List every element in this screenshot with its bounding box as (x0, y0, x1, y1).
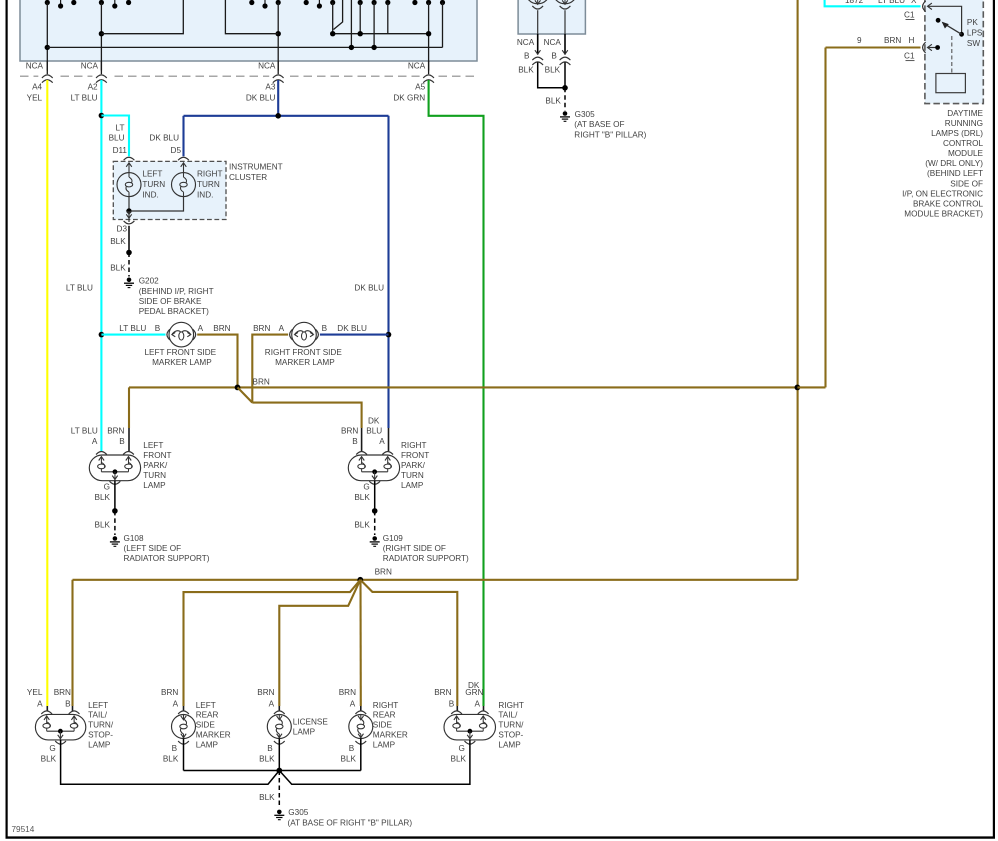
svg-text:BLK: BLK (163, 754, 179, 763)
svg-text:LEFT: LEFT (143, 441, 163, 450)
svg-text:NCA: NCA (258, 62, 276, 71)
svg-text:(AT BASE OF RIGHT "B" PILLAR): (AT BASE OF RIGHT "B" PILLAR) (288, 818, 413, 827)
wire BRN branch to license lamp (279, 580, 360, 712)
svg-text:NCA: NCA (517, 38, 535, 47)
wire BLK middle box to ground node (518, 63, 568, 111)
svg-text:A2: A2 (88, 82, 98, 91)
svg-text:C1: C1 (904, 11, 915, 20)
daytime running lamps (DRL) control module (dashed box) (925, 0, 983, 104)
svg-text:BRN: BRN (884, 36, 901, 45)
svg-text:G: G (104, 483, 110, 492)
svg-text:MARKER LAMP: MARKER LAMP (152, 358, 212, 367)
svg-text:B: B (551, 52, 557, 61)
svg-text:BRN: BRN (213, 324, 230, 333)
svg-text:RADIATOR SUPPORT): RADIATOR SUPPORT) (124, 554, 210, 563)
svg-text:B: B (155, 324, 161, 333)
svg-text:G: G (459, 744, 465, 753)
svg-text:MARKER: MARKER (196, 731, 231, 740)
svg-text:NCA: NCA (26, 62, 44, 71)
svg-text:BRN: BRN (339, 688, 356, 697)
wire 9 BRN to DRL module pin H (826, 36, 921, 48)
svg-text:A: A (198, 324, 204, 333)
svg-text:BLK: BLK (545, 97, 561, 106)
ground G305 (rear) (274, 808, 412, 827)
svg-text:YEL: YEL (27, 688, 43, 697)
svg-text:1872: 1872 (845, 0, 864, 5)
lamp LEFT FRONT PARK/TURN LAMP (71, 427, 172, 491)
wire BRN bus (upper) with junction (129, 378, 797, 452)
svg-text:LICENSE: LICENSE (293, 718, 329, 727)
svg-text:B: B (524, 52, 530, 61)
junction block internal bus wires (45, 0, 443, 74)
svg-text:NCA: NCA (408, 62, 426, 71)
svg-text:STOP-: STOP- (88, 731, 113, 740)
svg-text:BLK: BLK (259, 754, 275, 763)
svg-text:REAR: REAR (373, 711, 396, 720)
svg-text:LT: LT (116, 123, 125, 132)
svg-text:(BEHIND I/P, RIGHT: (BEHIND I/P, RIGHT (139, 287, 214, 296)
svg-text:TURN/: TURN/ (88, 721, 114, 730)
svg-text:RUNNING: RUNNING (945, 119, 983, 128)
lamp LICENSE LAMP (257, 688, 328, 763)
svg-text:REAR: REAR (196, 711, 219, 720)
junction block J1 (top left, cut off at top) (20, 0, 477, 61)
pin G right front park/turn lamp + wire BLK (354, 481, 380, 535)
pin D3 connector (cluster ground) (117, 221, 135, 234)
svg-text:TURN: TURN (142, 180, 165, 189)
svg-text:YEL: YEL (27, 93, 43, 102)
svg-text:BLK: BLK (518, 66, 534, 75)
svg-text:NCA: NCA (544, 38, 562, 47)
connector A2 (NCA / LT BLU) (71, 61, 111, 102)
DRL module internal relay box (936, 36, 966, 93)
svg-text:BRN: BRN (434, 688, 451, 697)
lamp RIGHT TURN IND. (172, 163, 223, 200)
svg-text:B: B (65, 700, 71, 709)
svg-text:LEFT: LEFT (196, 701, 216, 710)
svg-text:RIGHT: RIGHT (498, 701, 523, 710)
svg-text:CONTROL: CONTROL (943, 139, 983, 148)
lamp RIGHT FRONT SIDE MARKER LAMP (253, 322, 367, 366)
wire BRN branch to left rear side marker (184, 580, 361, 712)
node DK BLU to right front side marker B (320, 332, 391, 338)
wire DK GRN from A5 to right tail lamp A (429, 80, 484, 711)
svg-text:RIGHT FRONT SIDE: RIGHT FRONT SIDE (265, 348, 343, 357)
lamp RIGHT FRONT PARK/TURN LAMP (341, 416, 429, 490)
instrument cluster module (dashed box) (113, 161, 282, 219)
svg-text:(RIGHT SIDE OF: (RIGHT SIDE OF (383, 544, 446, 553)
svg-text:INSTRUMENT: INSTRUMENT (229, 163, 283, 172)
svg-text:BLK: BLK (259, 793, 275, 802)
svg-text:A: A (350, 700, 356, 709)
svg-text:RIGHT: RIGHT (373, 701, 398, 710)
svg-text:RIGHT "B" PILLAR): RIGHT "B" PILLAR) (574, 130, 646, 139)
svg-text:BLK: BLK (95, 521, 111, 530)
lamp assembly box (top middle, cut off) (518, 0, 585, 34)
svg-text:DK BLU: DK BLU (246, 93, 276, 102)
svg-text:IND.: IND. (142, 191, 158, 200)
svg-text:BLK: BLK (41, 754, 57, 763)
svg-text:A: A (92, 437, 98, 446)
wire BRN left front side marker A to bus (197, 335, 237, 388)
svg-text:RIGHT: RIGHT (401, 441, 426, 450)
svg-text:DK: DK (368, 416, 380, 425)
lamp LEFT TAIL/TURN/STOP-LAMP (27, 688, 114, 749)
svg-text:NCA: NCA (81, 62, 99, 71)
junction block internal pin dots (45, 0, 445, 9)
svg-text:A: A (379, 437, 385, 446)
wire LT BLU from A2 (vertical main run) (100, 80, 102, 451)
svg-text:A4: A4 (32, 82, 42, 91)
lamp LEFT TURN IND. (117, 163, 165, 200)
svg-text:DK BLU: DK BLU (354, 283, 384, 292)
switch PK LPS SW inside DRL module (928, 6, 983, 48)
wire BLK rear ground bus (61, 739, 470, 809)
label LT BLU on main run (66, 283, 93, 292)
wire BLK from D3 (110, 226, 132, 277)
wire BRN from DRL pin H down to upper bus (797, 48, 825, 388)
svg-text:FRONT: FRONT (401, 451, 429, 460)
svg-text:CLUSTER: CLUSTER (229, 173, 267, 182)
svg-text:(LEFT SIDE OF: (LEFT SIDE OF (124, 544, 182, 553)
wire DK BLU from A3 (149, 80, 388, 451)
svg-text:LT BLU: LT BLU (66, 283, 93, 292)
svg-text:DK BLU: DK BLU (337, 324, 367, 333)
svg-text:79514: 79514 (12, 825, 35, 834)
svg-text:X: X (911, 0, 917, 5)
lamp (left, top middle box) (525, 0, 550, 34)
svg-text:PARK/: PARK/ (401, 461, 426, 470)
svg-text:B: B (267, 744, 273, 753)
svg-text:LT BLU: LT BLU (71, 427, 98, 436)
svg-text:LPS: LPS (967, 29, 983, 38)
svg-text:BRAKE CONTROL: BRAKE CONTROL (913, 199, 984, 208)
svg-text:A3: A3 (265, 82, 275, 91)
svg-text:LAMP: LAMP (88, 740, 111, 749)
svg-text:D5: D5 (171, 146, 182, 155)
svg-text:(BEHIND LEFT: (BEHIND LEFT (927, 169, 983, 178)
ground G108 (110, 534, 210, 563)
wire BRN branch to right rear side marker (359, 580, 361, 712)
svg-text:SIDE: SIDE (373, 721, 393, 730)
pin D11 connector (instrument cluster) (113, 146, 135, 160)
svg-text:TAIL/: TAIL/ (498, 711, 518, 720)
svg-text:GRN: GRN (465, 688, 483, 697)
svg-text:TURN/: TURN/ (498, 721, 524, 730)
pin G left front park/turn lamp + wire BLK (95, 481, 121, 535)
svg-text:PARK/: PARK/ (143, 461, 168, 470)
svg-text:LAMP: LAMP (196, 740, 219, 749)
svg-text:C1: C1 (904, 52, 915, 61)
svg-text:BRN: BRN (107, 427, 124, 436)
svg-text:BLK: BLK (354, 521, 370, 530)
svg-text:BRN: BRN (161, 688, 178, 697)
wire BRN right front side marker A to park/turn feed (252, 335, 288, 403)
lamp LEFT FRONT SIDE MARKER LAMP (119, 322, 230, 366)
wire 1872 LT BLU to DRL module pin X (825, 0, 921, 6)
svg-text:DAYTIME: DAYTIME (947, 109, 983, 118)
connector B (right BLK, middle box) (544, 34, 571, 65)
svg-text:(W/ DRL ONLY): (W/ DRL ONLY) (925, 159, 983, 168)
connector A4 (NCA / YEL) (26, 61, 57, 102)
svg-text:BRN: BRN (341, 427, 358, 436)
svg-text:B: B (352, 437, 358, 446)
svg-text:LT BLU: LT BLU (119, 324, 146, 333)
svg-text:MARKER LAMP: MARKER LAMP (275, 358, 335, 367)
svg-text:SW: SW (967, 39, 980, 48)
svg-text:9: 9 (857, 36, 862, 45)
svg-text:B: B (119, 437, 125, 446)
svg-text:FRONT: FRONT (143, 451, 171, 460)
svg-text:LAMPS (DRL): LAMPS (DRL) (931, 129, 983, 138)
wire BRN branch to right tail lamp B (360, 580, 457, 712)
pin X connector C1 (DRL module) (904, 1, 932, 20)
svg-text:MODULE: MODULE (948, 149, 984, 158)
svg-text:SIDE OF: SIDE OF (950, 179, 983, 188)
svg-text:BRN: BRN (253, 378, 270, 387)
connector B (left BLK, middle box) (517, 34, 543, 65)
svg-text:LAMP: LAMP (293, 728, 316, 737)
svg-text:IND.: IND. (197, 191, 213, 200)
svg-text:SIDE: SIDE (196, 721, 216, 730)
ground G202 (124, 277, 214, 317)
diagram number 79514 (12, 825, 35, 834)
svg-text:B: B (322, 324, 328, 333)
svg-text:G109: G109 (383, 534, 403, 543)
node LT BLU branch to instrument cluster D11 (99, 113, 129, 157)
svg-text:RADIATOR SUPPORT): RADIATOR SUPPORT) (383, 554, 469, 563)
svg-text:LAMP: LAMP (401, 481, 424, 490)
svg-text:STOP-: STOP- (498, 731, 523, 740)
svg-text:SIDE OF BRAKE: SIDE OF BRAKE (139, 297, 202, 306)
svg-text:LT BLU: LT BLU (71, 93, 98, 102)
svg-text:BLK: BLK (545, 66, 561, 75)
lamp RIGHT REAR SIDE MARKER LAMP (339, 688, 408, 763)
ground G109 (370, 534, 469, 563)
svg-text:RIGHT: RIGHT (197, 170, 222, 179)
svg-text:BRN: BRN (375, 568, 392, 577)
lamp RIGHT TAIL/TURN/STOP-LAMP (434, 681, 524, 749)
svg-text:TURN: TURN (143, 471, 166, 480)
svg-text:BLK: BLK (354, 493, 370, 502)
svg-text:LT BLU: LT BLU (878, 0, 905, 5)
svg-text:A: A (474, 700, 480, 709)
pin G left tail lamp (41, 741, 66, 763)
svg-text:B: B (172, 744, 178, 753)
svg-text:LAMP: LAMP (498, 740, 521, 749)
svg-text:H: H (909, 36, 915, 45)
svg-text:DK BLU: DK BLU (149, 134, 179, 143)
svg-text:LAMP: LAMP (143, 481, 166, 490)
svg-text:G108: G108 (124, 534, 144, 543)
svg-text:TAIL/: TAIL/ (88, 711, 108, 720)
wire YEL from A4 to left tail lamp A (46, 80, 48, 711)
pin G right tail lamp (451, 741, 476, 763)
svg-text:G: G (49, 744, 55, 753)
svg-text:BRN: BRN (54, 688, 71, 697)
connector A5 (NCA / DK GRN) (393, 61, 437, 102)
svg-text:LEFT FRONT SIDE: LEFT FRONT SIDE (145, 348, 217, 357)
wire BRN bus (lower) with crow-foot junction (73, 568, 798, 712)
svg-text:BLU: BLU (109, 134, 125, 143)
svg-text:D3: D3 (117, 225, 128, 234)
pin D5 connector (instrument cluster) (171, 146, 189, 160)
svg-text:G: G (363, 483, 369, 492)
svg-text:B: B (349, 744, 355, 753)
connector A3 (NCA / DK BLU) (246, 61, 287, 102)
svg-text:B: B (449, 700, 455, 709)
svg-text:I/P, ON ELECTRONIC: I/P, ON ELECTRONIC (902, 189, 983, 198)
label DK BLU on main run (354, 283, 384, 292)
svg-text:A: A (279, 324, 285, 333)
svg-text:(AT BASE OF: (AT BASE OF (574, 120, 624, 129)
svg-text:BLK: BLK (110, 264, 126, 273)
ground G305 (top middle) (560, 110, 647, 139)
svg-text:D11: D11 (113, 146, 128, 155)
svg-text:A5: A5 (415, 82, 425, 91)
svg-text:BLK: BLK (95, 493, 111, 502)
svg-text:BLK: BLK (341, 754, 357, 763)
svg-text:TURN: TURN (197, 180, 220, 189)
svg-text:A: A (173, 700, 179, 709)
DRL module caption text (902, 109, 983, 218)
lamp (right, top middle box) (553, 0, 578, 34)
svg-text:G202: G202 (139, 277, 159, 286)
svg-text:PEDAL BRACKET): PEDAL BRACKET) (139, 307, 209, 316)
svg-text:G305: G305 (575, 110, 595, 119)
svg-text:BLK: BLK (110, 237, 126, 246)
svg-text:TURN: TURN (401, 471, 424, 480)
svg-text:PK: PK (967, 18, 978, 27)
node LT BLU to left front side marker (99, 332, 166, 338)
svg-text:BLK: BLK (451, 754, 467, 763)
svg-text:G305: G305 (288, 808, 308, 817)
lamp LEFT REAR SIDE MARKER LAMP (161, 688, 231, 763)
svg-text:LEFT: LEFT (88, 701, 108, 710)
svg-text:BLU: BLU (366, 427, 382, 436)
cluster internal ground wire and node (126, 197, 183, 222)
svg-text:BRN: BRN (253, 324, 270, 333)
svg-text:MARKER: MARKER (373, 731, 408, 740)
pin H connector C1 (DRL module) (904, 42, 940, 61)
dashed connector separator line (20, 75, 477, 77)
svg-text:A: A (37, 700, 43, 709)
svg-text:LEFT: LEFT (142, 170, 162, 179)
svg-text:A: A (269, 700, 275, 709)
svg-text:MODULE BRACKET): MODULE BRACKET) (904, 209, 983, 218)
svg-text:BRN: BRN (257, 688, 274, 697)
wire BRN vertical from top (cut off) to upper bus (795, 0, 801, 580)
svg-text:LAMP: LAMP (373, 740, 396, 749)
svg-text:DK GRN: DK GRN (393, 93, 425, 102)
